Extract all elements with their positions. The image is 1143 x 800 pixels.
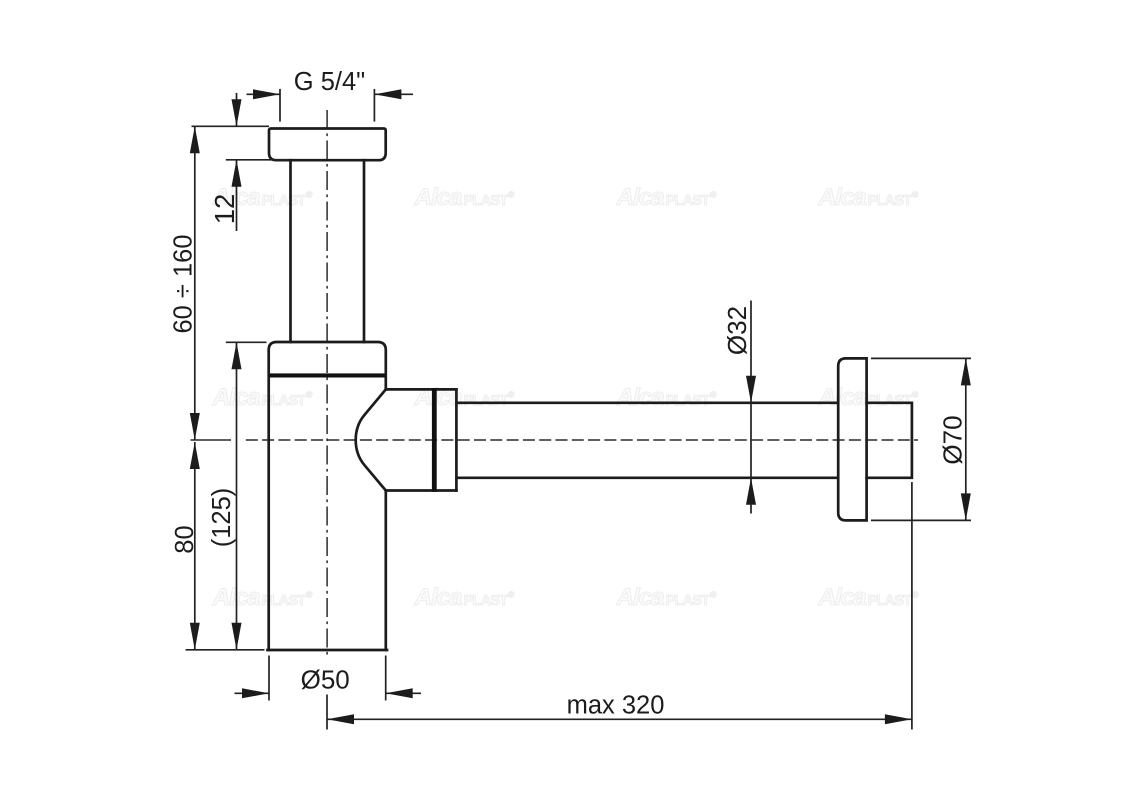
svg-text:60 ÷ 160: 60 ÷ 160 (170, 234, 198, 333)
svg-text:AlcaPLAST®: AlcaPLAST® (616, 184, 718, 211)
svg-text:AlcaPLAST®: AlcaPLAST® (414, 584, 516, 611)
svg-text:80: 80 (171, 525, 199, 553)
svg-text:AlcaPLAST®: AlcaPLAST® (616, 584, 718, 611)
svg-text:G 5/4": G 5/4" (294, 68, 365, 96)
svg-text:Ø50: Ø50 (301, 665, 350, 695)
svg-text:AlcaPLAST®: AlcaPLAST® (212, 584, 314, 611)
svg-text:AlcaPLAST®: AlcaPLAST® (616, 384, 718, 411)
svg-text:AlcaPLAST®: AlcaPLAST® (818, 184, 920, 211)
svg-text:AlcaPLAST®: AlcaPLAST® (212, 384, 314, 411)
svg-text:12: 12 (209, 194, 240, 225)
svg-text:(125): (125) (208, 488, 236, 548)
svg-text:Ø32: Ø32 (722, 306, 752, 355)
svg-text:AlcaPLAST®: AlcaPLAST® (414, 184, 516, 211)
svg-text:Ø70: Ø70 (938, 415, 968, 464)
svg-text:max 320: max 320 (567, 691, 665, 719)
svg-text:AlcaPLAST®: AlcaPLAST® (818, 384, 920, 411)
svg-text:AlcaPLAST®: AlcaPLAST® (818, 584, 920, 611)
